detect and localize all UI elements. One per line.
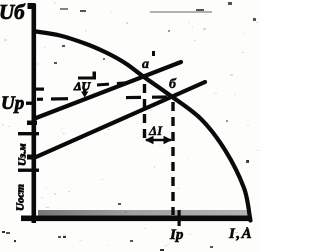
I axis (horizontal) bbox=[21, 216, 251, 222]
speck above a bbox=[152, 51, 155, 56]
svg-text:Iр: Iр bbox=[169, 227, 184, 243]
svg-text:б: б bbox=[169, 77, 177, 92]
dashed level of point a bbox=[97, 82, 136, 85]
svg-text:Uр: Uр bbox=[1, 93, 24, 114]
vertical dashed from point b to I axis bbox=[171, 102, 174, 215]
svg-text:I,А: I,А bbox=[228, 226, 253, 242]
svg-text:Uост: Uост bbox=[15, 184, 27, 211]
U axis (vertical) bbox=[32, 4, 37, 223]
tick at Up on axis (left) bbox=[26, 102, 32, 105]
tick level 2 on U axis bbox=[18, 169, 39, 172]
tick Ip on I axis bbox=[178, 210, 181, 226]
darker scan specks bbox=[2, 8, 249, 251]
scan noise specks bbox=[6, 2, 256, 248]
svg-text:Uз.м: Uз.м bbox=[17, 143, 29, 166]
svg-text:ΔI: ΔI bbox=[148, 123, 163, 138]
svg-text:Uб: Uб bbox=[0, 0, 26, 24]
load line 2 (lower) bbox=[36, 82, 205, 157]
delta-U cluster bbox=[73, 72, 96, 98]
svg-text:ΔU: ΔU bbox=[73, 79, 92, 93]
svg-text:а: а bbox=[142, 57, 149, 72]
load line 1 (upper) bbox=[36, 62, 181, 118]
vertical dashed from point a bbox=[143, 84, 146, 140]
tick level 1 on U axis bbox=[18, 132, 39, 135]
U axis top serif bbox=[28, 3, 36, 9]
blob at line1 axis junction bbox=[27, 121, 37, 126]
dashed level Up bbox=[37, 97, 167, 99]
delta-I arrow bbox=[146, 137, 171, 144]
small dash right of axis above Up bbox=[36, 88, 44, 91]
faint paper mottle bbox=[2, 2, 259, 247]
external characteristic curve bbox=[36, 32, 251, 221]
blob at line2 axis junction bbox=[27, 155, 36, 160]
